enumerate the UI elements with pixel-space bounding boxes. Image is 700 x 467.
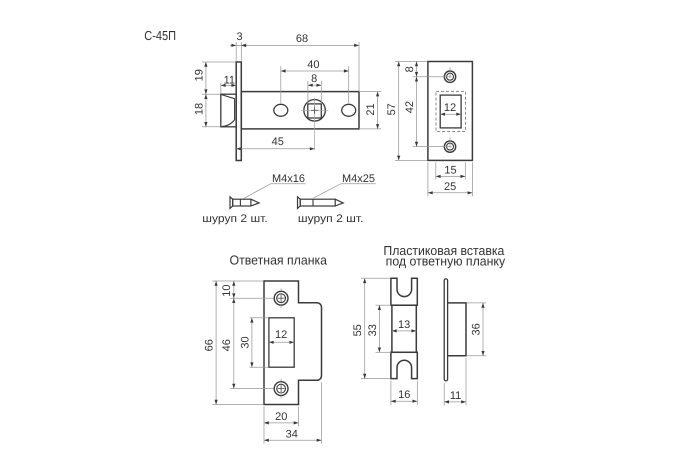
svg-text:Ответная планка: Ответная планка: [230, 253, 328, 268]
svg-text:3: 3: [237, 31, 243, 43]
dim 12 faceplate: [440, 113, 461, 115]
svg-text:34: 34: [286, 428, 298, 440]
dim 8 extension lines: [307, 81, 309, 104]
insert front top flange: [391, 278, 417, 305]
strike plate outline: [264, 281, 322, 405]
svg-text:шуруп 2 шт.: шуруп 2 шт.: [298, 213, 364, 225]
svg-text:30: 30: [239, 336, 251, 348]
dim 68 extension line: [358, 42, 360, 92]
dim 15: [436, 175, 466, 177]
faceplate dashed cutout: [436, 91, 466, 131]
dim 36 extension lines: [467, 302, 486, 304]
dim 16: [391, 400, 417, 402]
dim 40: [281, 70, 349, 72]
svg-text:8: 8: [404, 66, 416, 72]
dim 68: [241, 44, 359, 46]
dim 36: [482, 303, 484, 356]
svg-text:16: 16: [398, 389, 410, 401]
dim 11 insert: [444, 401, 466, 403]
spindle circle: [304, 100, 326, 122]
svg-text:С-45П: С-45П: [144, 28, 176, 43]
screw M4x25: [298, 197, 301, 209]
dim 10: [233, 281, 235, 298]
spindle square: [308, 104, 322, 118]
screw M4x16 leader: [244, 184, 271, 199]
strike plate top hole: [274, 291, 288, 305]
dim 33: [378, 305, 380, 352]
svg-text:21: 21: [365, 103, 377, 115]
screw M4x25 leader: [314, 184, 341, 198]
svg-text:57: 57: [386, 103, 398, 115]
centerline spindle horizontal: [301, 109, 328, 111]
faceplate square hole: [440, 95, 461, 128]
dim 3: [230, 44, 236, 46]
dim 42: [416, 77, 418, 147]
insert side thin plate: [444, 279, 447, 381]
latch bolt bevel: [221, 95, 234, 127]
faceplate bottom hole: [444, 141, 455, 152]
dim 11 extension lines: [443, 383, 445, 406]
strike plate bottom hole cross: [278, 388, 285, 390]
dim 11: [221, 84, 236, 86]
strike plate bottom hole: [274, 382, 288, 396]
dim 25 extension lines: [427, 162, 429, 196]
insert front bottom flange: [391, 352, 417, 378]
insert side block: [448, 303, 466, 356]
dim 19-18 extension lines: [202, 61, 236, 63]
dim 30: [251, 318, 253, 367]
latch body: [241, 92, 359, 129]
spindle center cross: [311, 109, 318, 111]
svg-text:10: 10: [221, 284, 233, 296]
dim 25: [428, 192, 473, 194]
hole left: [274, 104, 288, 116]
dim 46: [233, 298, 235, 388]
dim 34 extension lines: [321, 382, 323, 444]
svg-text:11: 11: [450, 390, 461, 402]
dim 66: [215, 281, 217, 405]
svg-text:36: 36: [470, 323, 482, 335]
dim 12 strike: [269, 341, 294, 343]
svg-text:66: 66: [204, 339, 216, 351]
svg-text:под ответную планку: под ответную планку: [386, 253, 506, 268]
dim 57: [398, 62, 400, 161]
dim 21: [377, 92, 379, 129]
dim 15 extension lines: [435, 162, 437, 179]
svg-text:15: 15: [444, 165, 456, 177]
svg-text:11: 11: [224, 75, 235, 87]
dim 19: [205, 62, 207, 94]
svg-text:20: 20: [275, 411, 287, 423]
dim 3 extension lines: [235, 42, 237, 61]
dim 33 extension lines: [376, 304, 391, 306]
dim 10-46 extension lines: [230, 297, 274, 299]
svg-text:68: 68: [296, 33, 308, 45]
dim 16 extension lines: [390, 381, 392, 405]
centerline spindle vertical: [314, 98, 316, 151]
dim 57 extension line: [395, 61, 412, 63]
faceplate top hole centerline: [449, 67, 451, 78]
svg-text:40: 40: [307, 59, 319, 71]
insert front middle: [392, 305, 416, 352]
svg-text:42: 42: [404, 101, 416, 113]
faceplate edge bar: [236, 62, 241, 161]
dim 66 extension lines: [212, 280, 263, 282]
dim 8-42 extension lines: [413, 61, 427, 63]
svg-text:8: 8: [311, 73, 317, 85]
dim 21 extension lines: [359, 91, 381, 93]
svg-text:шуруп 2 шт.: шуруп 2 шт.: [202, 213, 268, 225]
dim 20: [264, 422, 299, 424]
screw M4x16: [230, 197, 233, 209]
dim 55 extension lines: [361, 277, 390, 279]
svg-text:19: 19: [193, 69, 205, 81]
dim 40 extension lines: [280, 66, 282, 103]
dim 8 top: [308, 84, 321, 86]
svg-text:55: 55: [352, 324, 364, 336]
svg-text:18: 18: [193, 103, 205, 115]
svg-text:45: 45: [272, 136, 284, 148]
strike plate hole rect: [269, 318, 294, 367]
faceplate bottom hole centerline: [449, 137, 451, 148]
svg-text:33: 33: [367, 324, 379, 336]
dim 30 extension lines: [250, 317, 268, 319]
dim 34: [264, 439, 322, 441]
faceplate top hole: [444, 71, 455, 82]
svg-text:25: 25: [444, 181, 456, 193]
latch bolt: [221, 94, 236, 127]
svg-text:46: 46: [221, 339, 233, 351]
svg-text:12: 12: [275, 329, 287, 341]
svg-text:12: 12: [444, 102, 456, 114]
dim 55: [364, 278, 366, 378]
dim 8 faceplate: [416, 62, 418, 77]
hole right: [342, 104, 356, 116]
faceplate front outline: [428, 62, 473, 161]
dim 11 extension line: [220, 83, 222, 94]
svg-text:М4х16: М4х16: [272, 173, 305, 185]
dim 45: [236, 148, 314, 150]
strike plate top hole cross: [278, 297, 285, 299]
svg-text:М4х25: М4х25: [342, 173, 375, 185]
svg-text:13: 13: [398, 319, 410, 331]
dim 18: [205, 94, 207, 127]
dim 13: [392, 330, 416, 332]
dim 20 extension lines: [263, 407, 265, 444]
